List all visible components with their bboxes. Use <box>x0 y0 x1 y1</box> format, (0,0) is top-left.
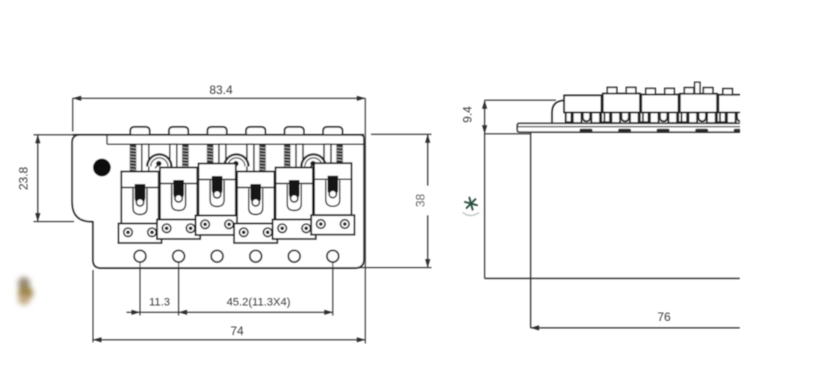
side: bent front lip <box>552 100 565 123</box>
back strip inner edge <box>107 143 364 145</box>
side saddle 6 block <box>757 94 794 112</box>
svg-text:38: 38 <box>413 194 427 208</box>
dim 23.8 <box>34 134 77 136</box>
screw shaft string 3 <box>219 144 226 166</box>
intonation screw thread string 1 <box>129 144 137 174</box>
dim 9.4 <box>485 99 556 101</box>
screw shaft string 4 <box>247 144 254 174</box>
saddle 2 lock bolt (dark) <box>173 180 184 199</box>
side saddle 4 under-screws <box>682 112 723 123</box>
saddle 3 lock bolt (dark) <box>212 176 223 195</box>
saddle 1 lock bolt (dark) <box>135 184 146 203</box>
saddle 4 string slot <box>249 189 263 215</box>
dim 11.3 / 45.2 extension lines <box>139 263 141 316</box>
saddle 4 base plate <box>234 224 277 244</box>
saddle 6 lock bolt (dark) <box>328 176 339 195</box>
saddle 6 base plate <box>311 215 354 235</box>
screw shaft string 1 <box>142 144 149 174</box>
saddle spring dome pair 1 <box>147 154 171 166</box>
intonation screw thread string 4 <box>259 144 267 174</box>
side: countersunk string holes <box>580 129 593 132</box>
saddle 2 block <box>160 168 197 220</box>
saddle 5 string slot <box>287 185 301 211</box>
saddle 2 string slot <box>172 185 186 211</box>
side saddle 5 block <box>718 95 755 113</box>
saddle 1 block <box>121 172 158 224</box>
side saddle 3 top screws <box>646 88 656 95</box>
dim line 11.3 and 45.2 <box>127 311 333 313</box>
intonation screw thread string 2 <box>182 144 190 170</box>
saddle 6 string slot <box>326 180 340 206</box>
saddle 3 block <box>198 164 235 216</box>
dim 38 (right of top view) <box>371 133 432 135</box>
annotation paren arc <box>463 213 480 216</box>
saddle spring dome pair 3 <box>301 154 325 166</box>
saddle 5 lock bolt (dark) <box>289 180 300 199</box>
bridge plate outline (top view) <box>72 135 364 268</box>
svg-text:9.4: 9.4 <box>461 106 475 123</box>
plate back edge over bumps <box>73 134 365 136</box>
svg-text:11.3: 11.3 <box>149 297 170 309</box>
intonation screw thread string 3 <box>206 144 214 166</box>
side: body/block bottom line <box>485 277 740 279</box>
saddle 2 base plate <box>157 220 200 240</box>
side saddle 3 under-screws <box>643 112 684 123</box>
saddle 5 block <box>276 168 313 220</box>
dim line 83.4 <box>73 97 366 99</box>
side saddle 4 top screws <box>684 88 694 95</box>
svg-text:83.4: 83.4 <box>209 83 233 97</box>
side saddle 1 block <box>564 95 601 112</box>
svg-text:23.8: 23.8 <box>17 166 31 190</box>
annotation asterisk (green) <box>465 198 477 210</box>
svg-text:76: 76 <box>657 310 671 324</box>
tremolo arm hole (filled) <box>93 159 111 177</box>
side saddle 1 under-screws <box>566 112 607 123</box>
screw shaft string 2 <box>170 144 177 170</box>
saddle 1 string slot <box>133 189 147 215</box>
side saddle 5 under-screws <box>720 112 761 123</box>
side: base plate bar <box>517 123 740 132</box>
svg-text:74: 74 <box>230 324 244 338</box>
side saddle 6 under-screws <box>759 112 800 123</box>
photo artifact blob (bottom left) <box>18 277 33 305</box>
saddle 6 block <box>314 163 351 215</box>
side saddle 6 top screws <box>762 88 772 95</box>
dim 76 <box>531 327 740 329</box>
saddle 3 base plate <box>196 216 239 236</box>
side saddle 5 top screws <box>723 89 733 96</box>
side saddle 2 top screws <box>607 87 617 94</box>
side saddle 4 block <box>680 94 717 113</box>
dim 74 <box>92 270 94 342</box>
saddle 3 string slot <box>210 181 224 207</box>
svg-text:45.2(11.3X4): 45.2(11.3X4) <box>227 297 291 309</box>
saddle spring dome pair 2 <box>224 154 248 166</box>
intonation screw thread string 6 <box>336 144 344 165</box>
side saddle 2 block <box>603 94 640 113</box>
saddle 5 base plate <box>273 220 316 240</box>
screw shaft string 5 <box>296 144 303 170</box>
side saddle 3 block <box>641 95 678 113</box>
side saddle 2 under-screws <box>604 112 645 123</box>
saddle 4 block <box>237 172 274 224</box>
side: tall screw tip <box>695 82 700 94</box>
screw shaft string 6 <box>324 144 331 165</box>
six mounting screw holes <box>134 250 146 262</box>
side: tremolo block front line <box>530 132 532 328</box>
saddle 1 base plate <box>118 224 161 244</box>
dim 83.4 extension lines <box>72 98 74 131</box>
string ferrule bumps on back edge <box>130 127 149 136</box>
intonation screw thread string 5 <box>283 144 291 170</box>
saddle 4 lock bolt (dark) <box>250 184 261 203</box>
